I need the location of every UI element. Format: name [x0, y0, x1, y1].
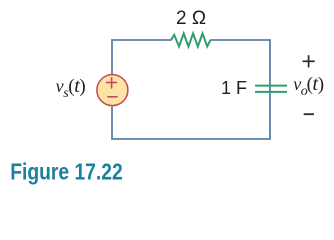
- svg-text:vs(t): vs(t): [56, 75, 86, 101]
- svg-text:vo(t): vo(t): [293, 73, 324, 99]
- svg-text:Figure 17.22: Figure 17.22: [10, 159, 123, 185]
- svg-text:1 F: 1 F: [221, 78, 247, 98]
- svg-text:2 Ω: 2 Ω: [176, 8, 206, 29]
